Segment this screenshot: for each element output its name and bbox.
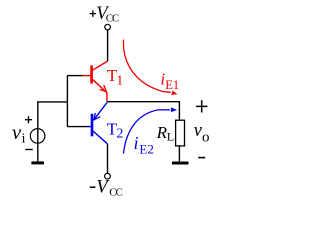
- svg-text:E1: E1: [165, 78, 179, 92]
- svg-text:1: 1: [116, 74, 123, 89]
- svg-text:CC: CC: [109, 186, 122, 198]
- svg-text:o: o: [202, 129, 210, 145]
- svg-text:L: L: [167, 129, 174, 143]
- svg-text:v: v: [12, 122, 22, 144]
- svg-text:i: i: [22, 132, 26, 147]
- svg-text:E2: E2: [139, 142, 153, 157]
- svg-text:i: i: [134, 133, 139, 153]
- svg-text:CC: CC: [106, 13, 119, 25]
- svg-text:2: 2: [116, 127, 123, 142]
